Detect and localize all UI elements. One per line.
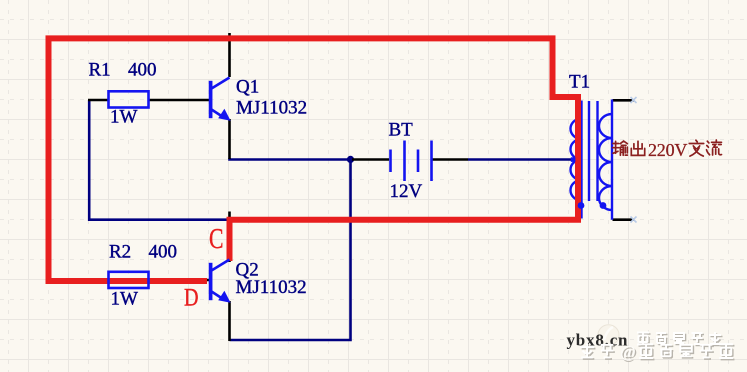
svg-text:D: D [184, 285, 199, 312]
net label output 220V AC (dark red), CJK drawn as paths [613, 140, 722, 156]
wire battery to transformer center tap (navy) [468, 158, 573, 161]
pin transformer secondary bottom (black) [613, 218, 635, 221]
watermark phrase line 1 (embossed) [639, 334, 723, 347]
pin transformer secondary top (black) [613, 99, 635, 102]
svg-text:R2: R2 [109, 242, 131, 263]
svg-text:MJ11032: MJ11032 [236, 98, 307, 119]
pin R2 right / Q2 base (black) [148, 279, 210, 282]
wire battery node down and to Q2 emitter (navy) [230, 160, 351, 341]
svg-text:Q1: Q1 [236, 77, 259, 98]
pin battery right (black) [432, 158, 468, 161]
svg-text:12V: 12V [390, 181, 423, 202]
pin Q2 collector (black) [228, 212, 231, 263]
red highlighted wire main loop [49, 38, 579, 281]
pin Q2 emitter (black) [228, 301, 231, 341]
svg-text:220V: 220V [648, 140, 687, 160]
pin-end marker secondary top [631, 97, 637, 103]
svg-text:C: C [209, 223, 224, 255]
resistor R2 [109, 272, 149, 288]
svg-text:400: 400 [149, 242, 178, 263]
char JIAO (AC-1) [689, 140, 703, 156]
resistor R1 [109, 91, 149, 107]
transformer secondary winding (blue) [599, 100, 612, 220]
wire Q1 emitter to battery node (navy) [230, 158, 353, 160]
pin battery left (black) [352, 158, 389, 161]
transformer primary polarity dot [578, 202, 585, 209]
svg-text:400: 400 [128, 60, 157, 81]
transistor Q2 [211, 260, 231, 303]
pin R1 right / Q1 base (black) [148, 99, 210, 102]
junction node center tap (blue) [571, 157, 576, 162]
svg-text:1W: 1W [110, 107, 138, 128]
char SHU (output-1) [613, 141, 628, 155]
svg-text:@: @ [620, 342, 636, 361]
transistor Q1 [211, 78, 231, 121]
char CHU (output-2) [631, 141, 644, 155]
svg-text:1W: 1W [111, 289, 139, 310]
svg-text:R1: R1 [89, 60, 111, 81]
svg-text:T1: T1 [569, 72, 590, 93]
transformer secondary polarity dot [600, 202, 607, 209]
battery BT plates [391, 141, 432, 182]
watermark phrase line 2 (embossed) [582, 345, 596, 359]
svg-text:MJ11032: MJ11032 [236, 277, 307, 298]
watermark logo circle [598, 325, 619, 345]
junction node battery-left [347, 156, 354, 163]
char LIU (AC-2) [707, 140, 722, 155]
transformer T1 primary winding (blue) [571, 101, 582, 219]
svg-text:BT: BT [389, 120, 414, 141]
pin R1 left (black) [88, 99, 109, 102]
pin Q1 collector (black) [228, 33, 231, 77]
pin Q1 emitter (black) [228, 119, 231, 159]
transformer core lines [589, 101, 598, 201]
wire R1 left loop (navy) [89, 100, 232, 220]
pin-end marker secondary bottom [631, 217, 637, 223]
